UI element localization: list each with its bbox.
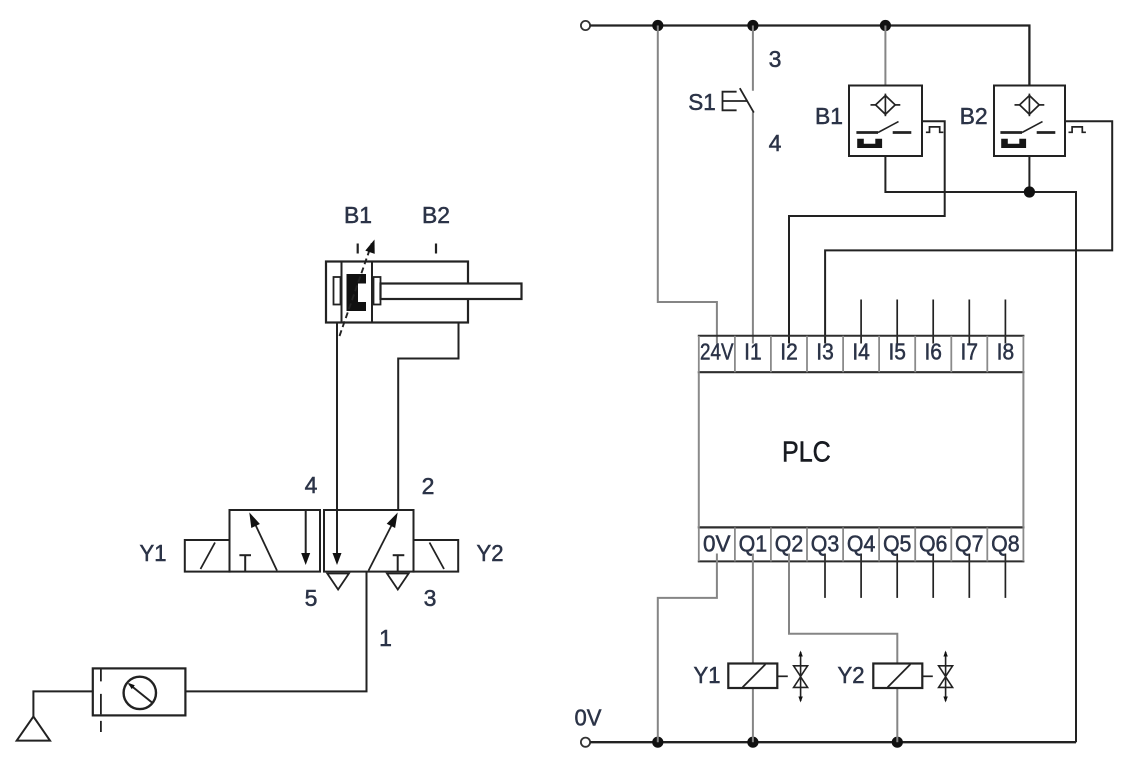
svg-text:B2: B2 bbox=[422, 202, 450, 228]
svg-text:I4: I4 bbox=[852, 339, 870, 365]
svg-text:5: 5 bbox=[305, 585, 318, 611]
svg-text:3: 3 bbox=[769, 46, 782, 72]
svg-text:Y2: Y2 bbox=[838, 662, 865, 688]
svg-text:Q3: Q3 bbox=[811, 531, 840, 557]
svg-text:2: 2 bbox=[422, 473, 435, 499]
svg-text:Y1: Y1 bbox=[694, 662, 721, 688]
svg-text:I6: I6 bbox=[924, 339, 942, 365]
svg-text:B1: B1 bbox=[815, 103, 843, 129]
svg-text:I2: I2 bbox=[780, 339, 798, 365]
svg-text:PLC: PLC bbox=[782, 437, 831, 469]
svg-text:I1: I1 bbox=[744, 339, 762, 365]
svg-text:24V: 24V bbox=[700, 339, 734, 365]
svg-text:Y1: Y1 bbox=[140, 540, 167, 566]
svg-text:S1: S1 bbox=[688, 89, 716, 115]
svg-text:0V: 0V bbox=[703, 531, 731, 557]
svg-text:4: 4 bbox=[305, 472, 318, 498]
svg-text:4: 4 bbox=[769, 130, 782, 156]
svg-text:I5: I5 bbox=[888, 339, 906, 365]
svg-text:Q2: Q2 bbox=[775, 531, 804, 557]
svg-text:0V: 0V bbox=[575, 705, 603, 731]
svg-text:Q8: Q8 bbox=[991, 531, 1020, 557]
svg-text:3: 3 bbox=[424, 585, 437, 611]
svg-text:Q4: Q4 bbox=[847, 531, 876, 557]
svg-text:1: 1 bbox=[379, 625, 392, 651]
svg-text:I8: I8 bbox=[997, 339, 1015, 365]
svg-text:Y2: Y2 bbox=[477, 540, 504, 566]
svg-text:I7: I7 bbox=[961, 339, 979, 365]
svg-text:Q1: Q1 bbox=[739, 531, 768, 557]
svg-text:Q7: Q7 bbox=[955, 531, 984, 557]
svg-text:B1: B1 bbox=[344, 202, 372, 228]
svg-text:Q6: Q6 bbox=[919, 531, 948, 557]
svg-text:B2: B2 bbox=[960, 103, 988, 129]
svg-text:I3: I3 bbox=[816, 339, 834, 365]
svg-text:Q5: Q5 bbox=[883, 531, 912, 557]
